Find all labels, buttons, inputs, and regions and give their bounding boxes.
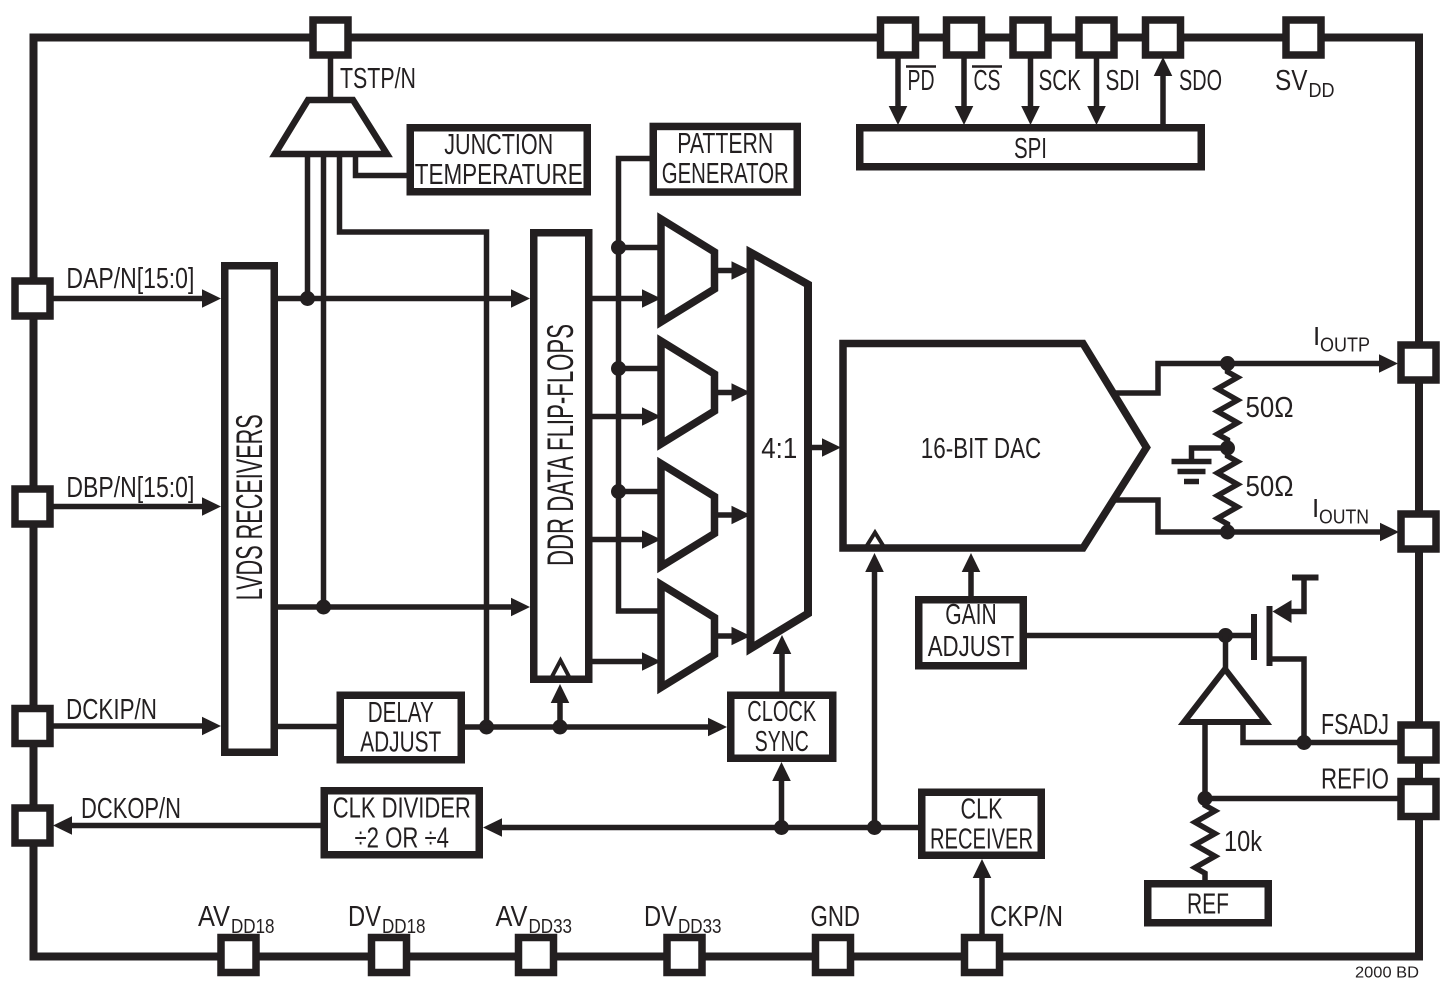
svg-text:DD33: DD33 bbox=[678, 916, 722, 938]
arrowhead DAP into LVDS RECEIVERS bbox=[202, 289, 221, 308]
arrowhead buffer 4 into 4:1 mux bbox=[732, 627, 751, 646]
clock wedge DAC bbox=[866, 533, 884, 548]
svg-text:TEMPERATURE: TEMPERATURE bbox=[415, 159, 583, 191]
wire DCKIP input bbox=[53, 723, 204, 729]
svg-text:REF: REF bbox=[1187, 889, 1229, 921]
pin FSADJ bbox=[1401, 725, 1436, 760]
svg-text:SDO: SDO bbox=[1179, 65, 1222, 97]
svg-text:DD33: DD33 bbox=[529, 916, 573, 938]
junction dot lower data bus bbox=[316, 600, 331, 615]
arrowhead mux output into 16-BIT DAC bbox=[822, 438, 841, 457]
junction dot REFIO node bbox=[1198, 791, 1213, 806]
arrowhead into CLOCK SYNC bottom bbox=[772, 762, 791, 781]
wire DCKOP output bbox=[70, 823, 322, 829]
svg-text:ADJUST: ADJUST bbox=[360, 727, 441, 759]
pin CS bbox=[947, 20, 982, 55]
block CLOCK SYNC bbox=[731, 695, 833, 758]
arrowhead DCKIP into LVDS RECEIVERS bbox=[202, 717, 221, 736]
arrowhead DAC clock into DAC bbox=[865, 553, 884, 572]
pin AVDD18 bbox=[221, 938, 256, 973]
junction dot op-amp to gate bbox=[1218, 628, 1233, 643]
mosfet Q1 channel bar bbox=[1267, 606, 1273, 666]
junction dot IOUTP at 50 ohm bbox=[1220, 356, 1235, 371]
wire DDR output to buffer 2 bbox=[590, 414, 644, 420]
mosfet Q1 drain supply bar bbox=[1292, 575, 1319, 581]
wire op-amp noninverting input bbox=[1202, 722, 1208, 799]
pin DBP/N bbox=[15, 489, 50, 524]
block PATTERN GENERATOR bbox=[653, 126, 797, 192]
junction dot feeder buffer 1 bbox=[611, 240, 626, 255]
junction dot feeder buffer 3 bbox=[611, 484, 626, 499]
pin TSTP/N bbox=[313, 20, 348, 55]
block JUNCTION TEMPERATURE bbox=[410, 128, 587, 192]
ground bar 2 bbox=[1178, 469, 1206, 475]
block 16-BIT DAC bbox=[843, 344, 1147, 549]
ground bar 1 bbox=[1172, 459, 1212, 465]
wire DELAY ADJUST output to CLOCK SYNC bbox=[463, 724, 710, 730]
resistor 50 ohm lower bbox=[1218, 448, 1238, 532]
arrowhead data bus upper into DDR flip-flops bbox=[511, 289, 530, 308]
pin DCKIP/N bbox=[15, 709, 50, 744]
svg-text:DD18: DD18 bbox=[382, 916, 426, 938]
wire DAC IOUTP output bbox=[1112, 364, 1380, 394]
pin SDI bbox=[1079, 20, 1114, 55]
wire TSTP buffer branch to delay line bbox=[340, 152, 487, 727]
wire buffer 4 output bbox=[715, 633, 735, 639]
wire PD to SPI bbox=[895, 57, 901, 107]
svg-text:RECEIVER: RECEIVER bbox=[930, 824, 1033, 856]
junction dot MOSFET source on FSADJ line bbox=[1297, 735, 1312, 750]
svg-text:÷2 OR ÷4: ÷2 OR ÷4 bbox=[355, 823, 450, 855]
arrowhead buffer 3 into 4:1 mux bbox=[732, 506, 751, 525]
arrowhead clock sync into mux bbox=[773, 635, 792, 654]
clock wedge DDR flip-flops bbox=[552, 661, 570, 678]
svg-text:OUTN: OUTN bbox=[1319, 507, 1369, 529]
svg-text:GAIN: GAIN bbox=[945, 599, 997, 631]
wire TSTP buffer stub bbox=[328, 56, 334, 100]
svg-text:ADJUST: ADJUST bbox=[928, 631, 1015, 663]
mosfet Q1 drain terminal bbox=[1289, 578, 1304, 612]
pin DCKOP/N bbox=[15, 808, 50, 843]
wire mux output to DAC bbox=[808, 445, 824, 451]
pin DAP/N bbox=[15, 281, 50, 316]
svg-text:DBP/N[15:0]: DBP/N[15:0] bbox=[66, 472, 194, 504]
arrowhead into buffer 3 bbox=[642, 530, 661, 549]
wire TSTP buffer branch to junction temperature bbox=[356, 152, 409, 176]
mosfet Q1 source terminal bbox=[1270, 659, 1305, 743]
junction dot upper data bus bbox=[300, 291, 315, 306]
junction dot delay line left bbox=[479, 720, 494, 735]
arrowhead buffer 2 into 4:1 mux bbox=[732, 383, 751, 402]
junction dot clock trunk at DAC clock bbox=[867, 820, 882, 835]
pin GND bbox=[816, 938, 851, 973]
data buffer 1 bbox=[661, 219, 715, 322]
op-amp U1 bbox=[1184, 669, 1266, 722]
wire clock trunk from CLK RECEIVER bbox=[500, 825, 920, 831]
svg-text:SPI: SPI bbox=[1014, 133, 1047, 165]
arrowhead DDR clock into flip-flops bbox=[551, 684, 570, 703]
junction dot DDR clock tap bbox=[553, 720, 568, 735]
svg-text:DD18: DD18 bbox=[231, 916, 275, 938]
svg-text:CKP/N: CKP/N bbox=[990, 901, 1063, 933]
wire op-amp output stub bbox=[1223, 636, 1229, 670]
block DDR DATA FLIP-FLOPS bbox=[534, 233, 589, 680]
arrowhead into buffer 2 bbox=[642, 407, 661, 426]
wire buffer 1 output bbox=[715, 268, 735, 274]
overline CS bbox=[972, 65, 1002, 68]
wire DDR clock arrow bbox=[557, 703, 563, 727]
wire DDR output to buffer 1 bbox=[590, 296, 644, 302]
pin SCK bbox=[1013, 20, 1048, 55]
wire CS to SPI bbox=[961, 57, 967, 107]
wire FSADJ feedback bbox=[1243, 719, 1398, 743]
svg-text:DD: DD bbox=[1309, 80, 1335, 102]
wire PATTERN GENERATOR feeder bbox=[619, 159, 660, 612]
wire feeder to buffer 2 top input bbox=[619, 366, 660, 372]
arrowhead DCKOP out to pin bbox=[53, 816, 72, 835]
mux 4:1 bbox=[751, 253, 809, 649]
wire GAIN ADJUST to DAC bbox=[968, 572, 974, 598]
junction dot clock trunk at clock sync bbox=[774, 820, 789, 835]
svg-text:CLK DIVIDER: CLK DIVIDER bbox=[333, 793, 471, 825]
resistor 50 ohm upper bbox=[1218, 364, 1238, 449]
arrowhead SDI into SPI bbox=[1087, 106, 1106, 125]
svg-text:OUTP: OUTP bbox=[1320, 335, 1370, 357]
data buffer 3 bbox=[661, 464, 715, 567]
block CLK RECEIVER bbox=[922, 792, 1042, 855]
resistor 10k bbox=[1195, 799, 1215, 881]
test buffer TSTP trapezoid bbox=[275, 100, 387, 154]
svg-text:AV: AV bbox=[496, 901, 529, 933]
svg-text:LVDS RECEIVERS: LVDS RECEIVERS bbox=[229, 414, 270, 600]
wire buffer 3 output bbox=[715, 512, 735, 518]
svg-text:GENERATOR: GENERATOR bbox=[662, 158, 789, 190]
wire SDO from SPI bbox=[1160, 76, 1166, 125]
svg-text:SV: SV bbox=[1275, 65, 1308, 97]
wire CKP input bbox=[979, 878, 985, 935]
svg-text:DAP/N[15:0]: DAP/N[15:0] bbox=[66, 263, 194, 295]
block GAIN ADJUST bbox=[919, 600, 1024, 666]
svg-text:DV: DV bbox=[348, 901, 382, 933]
svg-text:TSTP/N: TSTP/N bbox=[340, 63, 416, 95]
svg-text:4:1: 4:1 bbox=[761, 433, 797, 465]
overline PD bbox=[906, 65, 936, 68]
svg-text:50Ω: 50Ω bbox=[1246, 471, 1294, 503]
block DELAY ADJUST bbox=[340, 695, 461, 760]
wire LVDS to DDR data bus upper bbox=[278, 296, 513, 302]
svg-text:GND: GND bbox=[811, 901, 861, 933]
svg-text:PATTERN: PATTERN bbox=[677, 128, 773, 160]
wire DAC IOUTN output bbox=[1112, 500, 1381, 532]
pin PD bbox=[881, 20, 916, 55]
junction dot IOUTN at 50 ohm bbox=[1220, 525, 1235, 540]
svg-text:DCKIP/N: DCKIP/N bbox=[66, 694, 157, 726]
wire REFIO line bbox=[1205, 796, 1398, 802]
wire TSTP buffer branch to upper data bus bbox=[305, 152, 311, 299]
wire buffer 2 output bbox=[715, 390, 735, 396]
wire SCK to SPI bbox=[1028, 57, 1034, 107]
wire feeder to buffer 3 top input bbox=[619, 489, 660, 495]
block SPI bbox=[860, 128, 1202, 167]
svg-text:AV: AV bbox=[198, 901, 231, 933]
wire DBP input bbox=[53, 504, 204, 510]
wire CLOCK SYNC to mux select bbox=[779, 654, 785, 693]
svg-text:2000 BD: 2000 BD bbox=[1355, 965, 1419, 982]
svg-text:REFIO: REFIO bbox=[1321, 764, 1389, 796]
svg-text:PD: PD bbox=[908, 65, 935, 97]
block REF bbox=[1148, 884, 1269, 923]
svg-text:CLOCK: CLOCK bbox=[747, 696, 816, 728]
arrowhead PD into SPI bbox=[889, 106, 908, 125]
svg-text:DCKOP/N: DCKOP/N bbox=[81, 793, 181, 825]
pin SDO bbox=[1146, 20, 1181, 55]
wire DDR output to buffer 4 bbox=[590, 659, 644, 665]
svg-text:SCK: SCK bbox=[1039, 65, 1082, 97]
svg-text:DV: DV bbox=[644, 901, 678, 933]
wire DDR output to buffer 3 bbox=[590, 537, 644, 543]
wire GAIN ADJUST to MOSFET gate bbox=[1025, 633, 1251, 639]
svg-text:16-BIT DAC: 16-BIT DAC bbox=[921, 433, 1042, 465]
wire TSTP buffer branch to lower data bus bbox=[321, 152, 327, 607]
wire DAC clock feed bbox=[872, 572, 878, 828]
svg-text:10k: 10k bbox=[1224, 826, 1262, 858]
pin IOUTP bbox=[1401, 345, 1436, 380]
junction dot 50 ohm midpoint bbox=[1220, 441, 1235, 456]
arrowhead IOUTP into pin bbox=[1379, 354, 1398, 373]
pin REFIO bbox=[1401, 782, 1436, 817]
svg-text:JUNCTION: JUNCTION bbox=[444, 129, 553, 161]
data buffer 2 bbox=[661, 341, 715, 444]
ground bar 3 bbox=[1184, 479, 1199, 485]
arrowhead CS into SPI bbox=[955, 106, 974, 125]
arrowhead DBP into LVDS RECEIVERS bbox=[202, 497, 221, 516]
svg-text:SYNC: SYNC bbox=[755, 726, 809, 758]
arrowhead IOUTN into pin bbox=[1380, 523, 1399, 542]
junction dot feeder buffer 2 bbox=[611, 361, 626, 376]
arrowhead data bus lower into DDR flip-flops bbox=[511, 598, 530, 617]
arrowhead CKP into CLK RECEIVER bbox=[973, 859, 992, 878]
wire clock sync bottom feed bbox=[779, 781, 785, 828]
pin DVDD18 bbox=[372, 938, 407, 973]
data buffer 4 bbox=[661, 585, 715, 688]
block CLK DIVIDER bbox=[324, 791, 479, 855]
wire DELAY ADJUST input from LVDS bbox=[278, 724, 340, 730]
pin SVDD bbox=[1286, 20, 1321, 55]
pin DVDD33 bbox=[667, 938, 702, 973]
svg-text:50Ω: 50Ω bbox=[1246, 392, 1294, 424]
arrowhead into buffer 1 bbox=[642, 289, 661, 308]
svg-text:CS: CS bbox=[974, 65, 1001, 97]
wire SDI to SPI bbox=[1094, 57, 1100, 107]
wire LVDS to DDR data bus lower bbox=[278, 604, 513, 610]
svg-text:SDI: SDI bbox=[1106, 65, 1141, 97]
mosfet Q1 gate bar bbox=[1251, 614, 1257, 660]
block LVDS RECEIVERS bbox=[225, 266, 275, 753]
arrowhead gain adjust into DAC bbox=[962, 553, 981, 572]
wire ground stub bbox=[1192, 448, 1228, 459]
wire DAP input bbox=[53, 296, 204, 302]
pin IOUTN bbox=[1401, 514, 1436, 549]
arrowhead SCK into SPI bbox=[1021, 106, 1040, 125]
svg-text:DDR DATA FLIP-FLOPS: DDR DATA FLIP-FLOPS bbox=[540, 324, 581, 566]
pin CKP/N bbox=[965, 938, 1000, 973]
arrowhead into CLOCK SYNC bbox=[708, 718, 727, 737]
svg-text:CLK: CLK bbox=[961, 794, 1003, 826]
arrowhead into CLK DIVIDER bbox=[483, 818, 502, 837]
arrowhead SDO into pin bbox=[1154, 57, 1173, 76]
wire feeder to buffer 1 top input bbox=[619, 245, 660, 251]
svg-text:FSADJ: FSADJ bbox=[1321, 709, 1389, 741]
pin AVDD33 bbox=[519, 938, 554, 973]
arrowhead into buffer 4 bbox=[642, 652, 661, 671]
arrowhead buffer 1 into 4:1 mux bbox=[732, 261, 751, 280]
svg-text:DELAY: DELAY bbox=[368, 697, 434, 729]
mosfet Q1 bulk arrow bbox=[1273, 600, 1292, 623]
